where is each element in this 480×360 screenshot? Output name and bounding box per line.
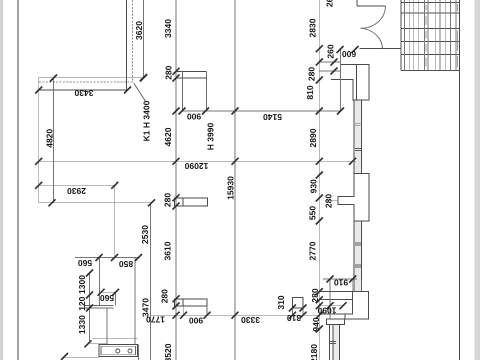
svg-text:2890: 2890 — [308, 128, 318, 147]
svg-text:280: 280 — [307, 67, 317, 81]
svg-text:2830: 2830 — [307, 18, 317, 37]
svg-text:310: 310 — [287, 313, 301, 323]
svg-text:560: 560 — [78, 258, 92, 268]
svg-text:120: 120 — [77, 296, 87, 310]
svg-text:280: 280 — [310, 288, 320, 302]
svg-text:280: 280 — [163, 65, 173, 79]
svg-text:12090: 12090 — [184, 161, 208, 171]
svg-text:280: 280 — [160, 289, 170, 303]
svg-text:3470: 3470 — [141, 298, 151, 317]
svg-text:600: 600 — [342, 49, 356, 59]
svg-text:280: 280 — [163, 193, 173, 207]
svg-text:3430: 3430 — [74, 88, 93, 98]
svg-text:810: 810 — [305, 85, 315, 99]
svg-text:550: 550 — [308, 206, 318, 220]
svg-text:2180: 2180 — [309, 344, 319, 360]
svg-text:1300: 1300 — [77, 275, 87, 294]
svg-text:K1 H 3400: K1 H 3400 — [142, 100, 152, 141]
svg-text:850: 850 — [119, 259, 133, 269]
svg-text:3340: 3340 — [163, 19, 173, 38]
svg-text:3610: 3610 — [163, 241, 173, 260]
svg-text:1330: 1330 — [77, 315, 87, 334]
svg-text:910: 910 — [334, 277, 348, 287]
svg-text:2530: 2530 — [140, 225, 150, 244]
svg-text:3330: 3330 — [241, 315, 260, 325]
svg-text:560: 560 — [100, 293, 114, 303]
svg-text:260: 260 — [325, 0, 335, 7]
svg-text:1090: 1090 — [317, 305, 336, 315]
svg-text:2770: 2770 — [308, 241, 318, 260]
svg-text:4620: 4620 — [163, 127, 173, 146]
svg-text:310: 310 — [276, 295, 286, 309]
svg-text:940: 940 — [311, 317, 321, 331]
svg-text:4820: 4820 — [45, 129, 55, 148]
svg-text:900: 900 — [189, 315, 203, 325]
svg-text:H 3990: H 3990 — [206, 123, 216, 151]
svg-text:280: 280 — [323, 194, 333, 208]
svg-text:930: 930 — [309, 179, 319, 193]
svg-text:260: 260 — [326, 44, 336, 58]
svg-text:15930: 15930 — [226, 176, 236, 200]
svg-text:900: 900 — [187, 112, 201, 122]
svg-text:3620: 3620 — [134, 21, 144, 40]
svg-text:5140: 5140 — [263, 112, 282, 122]
svg-text:2930: 2930 — [67, 186, 86, 196]
svg-text:8520: 8520 — [163, 343, 173, 360]
